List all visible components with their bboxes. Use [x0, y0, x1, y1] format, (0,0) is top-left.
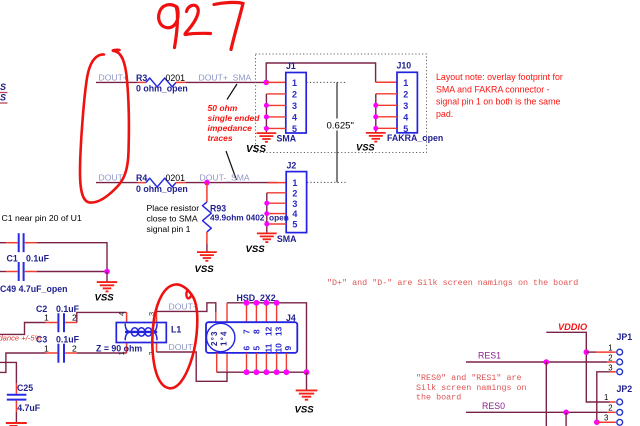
wire J2 ground rail — [266, 193, 268, 233]
svg-text:2: 2 — [72, 343, 77, 353]
node J1 pin4 — [264, 114, 269, 119]
connector J10 — [397, 60, 418, 134]
ground R93 VSS — [197, 252, 217, 261]
svg-text:RES0: RES0 — [482, 401, 505, 411]
node J10 pin4 — [373, 114, 378, 119]
pin stubs J4 bottom pins — [217, 353, 287, 372]
svg-text:0 ohm_open: 0 ohm_open — [136, 184, 188, 194]
ground J1 VSS — [257, 133, 277, 142]
svg-text:RES1: RES1 — [478, 351, 501, 361]
wire C1 to ground corner — [37, 243, 107, 272]
svg-text:0201: 0201 — [166, 173, 186, 183]
pin stubs J10 pins2-5 — [376, 94, 397, 129]
pin stub JP2 pin2 — [607, 411, 616, 413]
pin stub J4 pin3 — [215, 312, 217, 322]
svg-text:6: 6 — [241, 346, 251, 351]
svg-text:3: 3 — [292, 199, 297, 209]
node J2 pin5 — [264, 222, 269, 227]
svg-text:2: 2 — [292, 90, 297, 100]
pin stub J2 pin1 — [268, 182, 286, 184]
wire to J4 ground — [306, 372, 308, 390]
svg-text:4: 4 — [117, 312, 126, 316]
svg-text:5: 5 — [251, 346, 261, 351]
svg-text:SMA: SMA — [277, 234, 297, 244]
svg-text:VSS: VSS — [246, 144, 266, 155]
svg-text:4.7uF: 4.7uF — [17, 403, 41, 413]
pin stub L1 pin1 — [126, 343, 128, 354]
svg-text:3: 3 — [604, 414, 608, 423]
node J2 pin3 — [264, 201, 269, 206]
svg-text:J10: J10 — [397, 60, 412, 70]
note RES0 RES1 silk screen text — [416, 373, 527, 402]
node J4 pin5 — [254, 369, 260, 375]
wire RES0 branch down — [565, 412, 567, 426]
ground J4 VSS — [296, 390, 318, 399]
svg-text:2: 2 — [147, 351, 156, 355]
dotted outline box — [256, 54, 427, 153]
svg-text:close to SMA: close to SMA — [147, 214, 198, 224]
svg-text:"RES0" and "RES1" are: "RES0" and "RES1" are — [416, 373, 522, 383]
svg-text:1: 1 — [608, 344, 612, 353]
node JP1 pin1 junction — [584, 349, 590, 355]
node RES0 junction — [563, 410, 569, 416]
svg-text:the board: the board — [416, 393, 461, 403]
connector J1 — [286, 61, 306, 134]
svg-text:Layout note: overlay footprint: Layout note: overlay footprint for — [436, 72, 563, 82]
svg-text:11: 11 — [263, 343, 273, 352]
inductor L1 common mode choke — [116, 323, 181, 343]
svg-text:signal pin 1: signal pin 1 — [147, 224, 191, 234]
svg-text:DOUT-: DOUT- — [169, 342, 196, 352]
wire C3 pin2 to L1 pin1 — [77, 352, 127, 354]
svg-text:VSS: VSS — [295, 404, 315, 415]
node junction R93 — [204, 180, 210, 186]
wire C2 pin2 to L1 pin4 — [77, 312, 127, 322]
wire R4 to J2 pin1 — [186, 182, 277, 184]
svg-text:1: 1 — [604, 393, 608, 402]
svg-text:S: S — [0, 82, 6, 92]
connector J2 — [286, 161, 306, 233]
node junction DOUT+_SMA — [263, 80, 269, 86]
svg-text:Place resistor: Place resistor — [147, 203, 200, 213]
wire C2 pin1 to left edge — [0, 323, 46, 335]
svg-text:SMA and FAKRA connector -: SMA and FAKRA connector - — [436, 84, 550, 94]
wire JP1 pin1 — [586, 351, 596, 353]
node J4 pin10 — [274, 369, 280, 375]
node J4 ground corner — [304, 369, 310, 375]
svg-text:JP1: JP1 — [617, 332, 633, 342]
node J4 pin6 — [244, 369, 250, 375]
svg-text:13: 13 — [273, 326, 283, 336]
pin stub J4 pin4 — [226, 303, 228, 322]
wire L1 pin2 to J4 pin1 — [157, 352, 228, 381]
svg-text:"D+" and "D-" are Silk screen: "D+" and "D-" are Silk screen namings on… — [327, 278, 578, 288]
wire J4 bottom rail — [217, 371, 307, 373]
dotted leader J2 pin1 — [307, 181, 346, 183]
svg-text:traces: traces — [208, 133, 233, 143]
svg-text:S: S — [0, 93, 6, 103]
node J2 pin4 — [264, 211, 269, 216]
node J1 pin5 — [264, 126, 269, 131]
net stub S upper left — [0, 82, 8, 93]
wire VDDIO — [546, 332, 609, 402]
svg-text:7: 7 — [241, 329, 251, 334]
svg-text:L1: L1 — [171, 325, 181, 335]
svg-text:C49 4.7uF_open: C49 4.7uF_open — [0, 284, 67, 294]
svg-text:VSS: VSS — [246, 244, 266, 255]
node J4 pin7 — [244, 300, 250, 306]
svg-text:9: 9 — [283, 346, 293, 351]
svg-text:VDDIO: VDDIO — [558, 322, 587, 332]
svg-text:12: 12 — [263, 326, 273, 336]
capacitor C3 — [36, 334, 80, 362]
svg-text:Silk screen namings on: Silk screen namings on — [416, 383, 527, 393]
svg-text:2°3: 2°3 — [210, 330, 219, 346]
wire DOUT+ — [96, 81, 138, 83]
svg-text:VSS: VSS — [95, 292, 115, 303]
ground C1 VSS — [97, 282, 117, 291]
svg-text:4: 4 — [403, 112, 408, 122]
svg-text:3: 3 — [403, 101, 408, 111]
pointer line to DOUT- trace — [226, 151, 237, 180]
connector J4 — [206, 313, 297, 353]
svg-text:1: 1 — [292, 178, 297, 188]
svg-text:1: 1 — [44, 313, 49, 323]
wire RES1 branch down — [545, 362, 547, 426]
pin stub JP2 pin1 — [610, 401, 616, 403]
resistor R3 — [136, 73, 188, 94]
svg-text:Z = 90 ohm: Z = 90 ohm — [96, 344, 142, 354]
wire junction to ground — [106, 272, 108, 282]
svg-text:1: 1 — [403, 78, 408, 88]
annotation ellipse around DOUT labels — [80, 50, 129, 203]
wire DOUT- — [96, 182, 138, 184]
svg-text:0.625": 0.625" — [327, 121, 354, 132]
ground C25 VSS — [6, 423, 27, 426]
svg-text:SMA: SMA — [277, 133, 297, 143]
svg-text:DOUT+: DOUT+ — [99, 73, 128, 83]
resistor R93 vertical — [203, 183, 212, 244]
pin stubs J1 pins2-5 — [266, 94, 285, 128]
svg-text:5: 5 — [292, 220, 297, 230]
svg-text:1: 1 — [292, 78, 297, 88]
pin stub JP1 pin3 — [610, 371, 616, 373]
svg-text:pad.: pad. — [436, 109, 453, 119]
pin stubs J2 pins2-5 — [267, 193, 286, 224]
wire R93 to ground — [206, 244, 208, 252]
note 50 ohm text — [208, 103, 261, 143]
svg-text:0201: 0201 — [166, 73, 186, 83]
dimension line 0.625 — [336, 82, 338, 182]
wire JP1 pin3 to JP2 pin3 — [597, 372, 610, 422]
wire L1 pin3 to J4 pin3 — [157, 303, 216, 312]
svg-text:4: 4 — [292, 113, 297, 123]
handwritten mark 927 — [159, 2, 243, 49]
svg-text:FAKRA_open: FAKRA_open — [387, 133, 443, 143]
wire RES0 — [466, 411, 607, 413]
wire J10 ground rail — [375, 94, 377, 132]
pin stub L1 pin4 — [126, 312, 128, 322]
svg-text:C1: C1 — [7, 253, 18, 263]
svg-text:DOUT+: DOUT+ — [169, 302, 198, 312]
node J10 pin5 — [373, 126, 378, 131]
svg-text:impedance +/-5%: impedance +/-5% — [0, 334, 42, 343]
node J1 pin3 — [264, 103, 269, 108]
svg-text:3: 3 — [292, 101, 297, 111]
node RES1 junction — [544, 359, 550, 365]
capacitor C25 — [7, 383, 41, 413]
node J10 pin3 — [373, 103, 378, 108]
net stub S lower left — [0, 93, 8, 104]
svg-text:single ended: single ended — [208, 113, 261, 123]
svg-text:R3: R3 — [136, 73, 147, 83]
pin stub JP1 pin1 — [596, 351, 616, 353]
ground J10 VSS — [366, 133, 386, 142]
pin stub J10 pin1 — [376, 81, 397, 83]
wire R3 to J1 pin1 — [186, 81, 266, 83]
svg-text:2: 2 — [403, 89, 408, 99]
capacitor C49 — [0, 262, 67, 294]
connector JP1 — [608, 332, 632, 375]
wire J4 top rail — [227, 303, 307, 372]
svg-text:JP2: JP2 — [617, 384, 633, 394]
wire J1 ground rail — [265, 94, 267, 132]
svg-text:1°4: 1°4 — [220, 330, 229, 346]
dotted leader J1 pin1 — [307, 81, 347, 83]
capacitor C2 — [36, 304, 80, 332]
pin stub JP2 pin3 — [597, 421, 616, 423]
wire C3 pin1 to left edge — [0, 353, 46, 372]
ground J2 VSS — [257, 233, 277, 242]
node J4 pin9 — [284, 369, 290, 375]
svg-text:DOUT+_SMA: DOUT+_SMA — [199, 72, 252, 82]
svg-text:50 ohm: 50 ohm — [208, 103, 238, 113]
wire up and over to J10 — [266, 63, 375, 82]
node JP2 pin3 junction — [594, 419, 600, 425]
pin stub L1 pin3 — [156, 311, 158, 322]
svg-text:2: 2 — [608, 404, 612, 413]
svg-text:2: 2 — [292, 188, 297, 198]
node J4 pin12 — [264, 300, 270, 306]
svg-text:0.1uF: 0.1uF — [26, 253, 50, 263]
resistor R4 — [136, 173, 188, 194]
svg-text:0 ohm_open: 0 ohm_open — [136, 84, 188, 94]
wire C49 to junction — [37, 271, 107, 273]
node J4 pin13 — [274, 300, 280, 306]
svg-text:impedance: impedance — [208, 123, 253, 133]
note place resistor text — [147, 203, 200, 234]
wire C25 to ground — [15, 412, 17, 422]
pin stub J1 pin1 — [266, 81, 286, 83]
capacitor C1 — [0, 233, 50, 263]
node C1 C49 junction — [104, 269, 110, 275]
annotation ellipse around L1 outputs — [152, 284, 197, 388]
pin stub L1 pin2 — [156, 343, 158, 353]
svg-text:R4: R4 — [136, 173, 147, 183]
connector JP2 — [604, 384, 632, 425]
node J4 pin8 — [254, 300, 260, 306]
svg-text:J2: J2 — [287, 161, 297, 171]
svg-text:J1: J1 — [286, 61, 296, 71]
svg-text:signal pin 1 on both is the sa: signal pin 1 on both is the same — [436, 97, 560, 107]
svg-text:C25: C25 — [17, 383, 33, 393]
wire RES1 — [466, 361, 607, 363]
node J4 pin11 — [264, 369, 270, 375]
svg-text:1: 1 — [44, 343, 49, 353]
pointer line to DOUT+ trace — [227, 84, 237, 100]
svg-text:4: 4 — [292, 209, 297, 219]
svg-text:C1 near pin 20 of U1: C1 near pin 20 of U1 — [2, 213, 82, 223]
svg-text:VSS: VSS — [195, 264, 215, 275]
wire C25 branch — [0, 362, 16, 383]
svg-text:VSS: VSS — [356, 142, 375, 152]
pin stub JP1 pin2 — [607, 361, 616, 363]
pin stub J4 pin1 — [226, 353, 228, 372]
note layout overlay text — [436, 72, 563, 119]
pin stubs J4 top pins 7 8 12 13 — [247, 303, 277, 322]
svg-text:8: 8 — [251, 329, 261, 334]
